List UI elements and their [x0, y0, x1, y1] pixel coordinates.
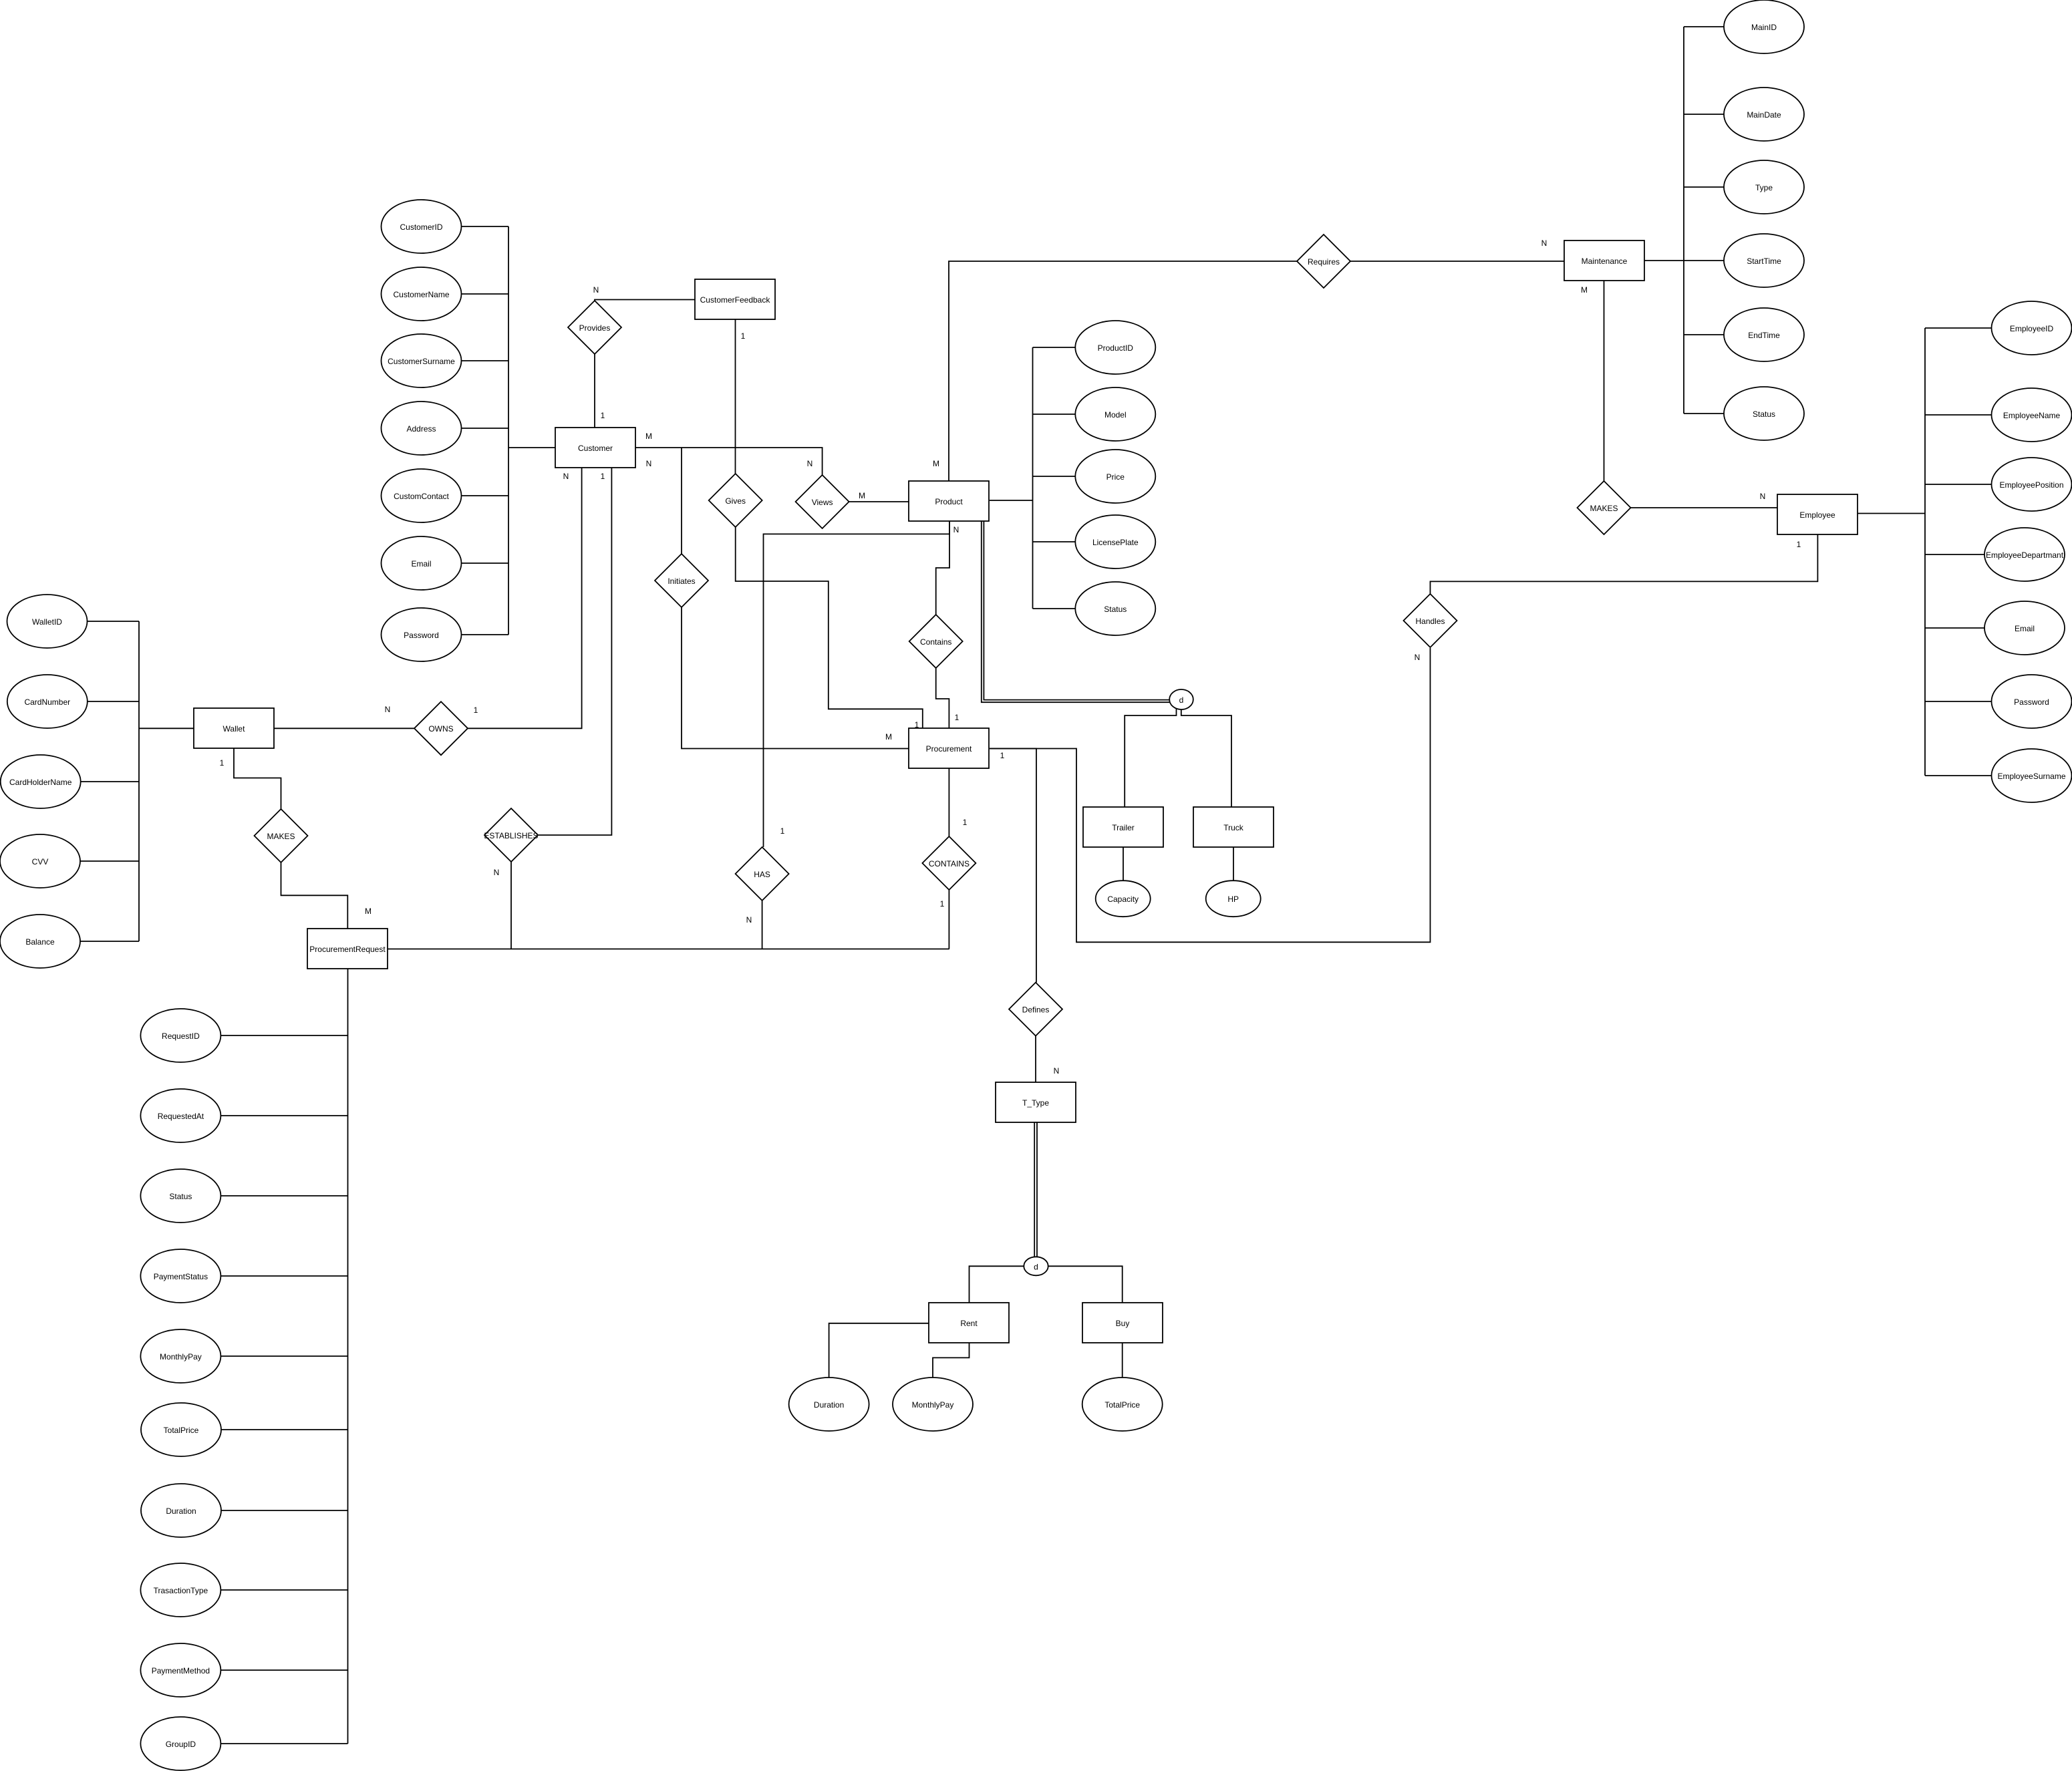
svg-text:Provides: Provides [579, 323, 611, 333]
entity CustomerFeedback [695, 279, 775, 319]
svg-text:PaymentMethod: PaymentMethod [152, 1666, 210, 1675]
wire Provides-Customer [594, 354, 595, 428]
relationship Contains [909, 615, 963, 668]
wire Wallet-MAKES [234, 748, 281, 809]
svg-text:d: d [1034, 1262, 1038, 1271]
svg-text:Balance: Balance [25, 937, 55, 947]
attribute EmployeeDepartmant [1984, 528, 2065, 581]
svg-text:1: 1 [940, 899, 945, 909]
wire Maintenance attribute bus [1644, 27, 1724, 414]
svg-text:Customer: Customer [578, 444, 613, 453]
attribute Balance [0, 915, 80, 968]
relationship Provides [568, 301, 621, 354]
svg-text:Maintenance: Maintenance [1582, 257, 1628, 266]
svg-text:MainDate: MainDate [1747, 110, 1781, 120]
svg-text:MainID: MainID [1751, 23, 1777, 32]
svg-text:M: M [859, 491, 865, 500]
svg-text:1: 1 [601, 472, 605, 481]
svg-text:HAS: HAS [754, 870, 770, 879]
wire Customer-ESTABLISHES [538, 468, 611, 835]
svg-text:Views: Views [812, 498, 833, 507]
svg-text:CardHolderName: CardHolderName [9, 778, 72, 787]
attribute TotalPrice (request) [141, 1403, 221, 1456]
attribute CustomerID [382, 200, 462, 253]
entity Employee [1777, 494, 1858, 534]
relationship Views [796, 475, 849, 528]
svg-text:Password: Password [404, 631, 439, 640]
attribute Email (employee) [1984, 601, 2065, 655]
node d (T_Type specialization) [1024, 1257, 1048, 1275]
relationship Requires [1297, 234, 1350, 288]
entity Maintenance [1564, 240, 1644, 281]
svg-text:RequestID: RequestID [162, 1031, 200, 1041]
relationship OWNS [414, 701, 468, 755]
wire long horizontal ProcurementRequest row [388, 949, 949, 950]
wire Product attribute bus [990, 347, 1075, 609]
svg-text:1: 1 [780, 826, 785, 836]
wire Views-Product [849, 501, 909, 502]
attribute EmployeeName [1992, 388, 2072, 442]
attribute MainDate [1724, 88, 1804, 141]
attribute TrasactionType [140, 1563, 220, 1617]
svg-text:TotalPrice: TotalPrice [1104, 1400, 1140, 1410]
svg-text:1: 1 [601, 411, 605, 420]
svg-text:CustomerID: CustomerID [400, 222, 442, 232]
attribute Email (customer) [382, 536, 462, 590]
svg-text:N: N [1541, 238, 1547, 248]
entity Product [909, 481, 989, 521]
node d (Product specialization) [1169, 689, 1193, 709]
svg-text:MonthlyPay: MonthlyPay [912, 1400, 954, 1410]
attribute CardHolderName [1, 755, 81, 808]
svg-text:M: M [885, 732, 892, 742]
wire d to Truck [1181, 709, 1231, 808]
wire Employee-Handles [1431, 534, 1818, 594]
svg-text:Duration: Duration [814, 1400, 844, 1410]
svg-text:1: 1 [741, 331, 746, 341]
svg-text:N: N [953, 525, 959, 534]
svg-text:TrasactionType: TrasactionType [154, 1586, 208, 1595]
wire d2 to Buy [1048, 1266, 1123, 1303]
svg-text:ProcurementRequest: ProcurementRequest [309, 945, 386, 954]
svg-text:Requires: Requires [1308, 257, 1340, 267]
wire double line T_Type-d2 [1034, 1122, 1035, 1257]
svg-text:CustomerSurname: CustomerSurname [388, 357, 455, 366]
svg-text:Status: Status [1753, 410, 1775, 419]
attribute TotalPrice (buy) [1082, 1378, 1163, 1431]
entity T_Type [996, 1082, 1076, 1122]
svg-text:M: M [365, 907, 372, 916]
svg-text:Rent: Rent [960, 1319, 978, 1328]
svg-text:RequestedAt: RequestedAt [158, 1112, 204, 1121]
svg-text:N: N [807, 459, 813, 468]
wire Defines-T_Type [1035, 1036, 1036, 1082]
svg-text:Price: Price [1106, 472, 1125, 482]
svg-text:1: 1 [1000, 751, 1005, 760]
attribute Password (customer) [382, 608, 462, 661]
wire Buy-TotalPrice [1122, 1343, 1123, 1378]
wire Trailer-Capacity [1123, 847, 1124, 880]
svg-text:CONTAINS: CONTAINS [929, 859, 970, 868]
svg-text:N: N [746, 915, 752, 925]
attribute RequestedAt [140, 1089, 220, 1142]
wire Maintenance-MAKES [1604, 281, 1605, 481]
wire double line Product-d [982, 521, 1170, 702]
svg-text:M: M [933, 459, 939, 468]
attribute Status (maintenance) [1724, 387, 1804, 440]
entity Customer [555, 428, 635, 468]
svg-text:1: 1 [963, 818, 968, 827]
svg-text:EmployeeID: EmployeeID [2010, 324, 2054, 333]
svg-text:LicensePlate: LicensePlate [1092, 538, 1139, 547]
relationship Handles [1404, 594, 1457, 647]
svg-text:CustomerFeedback: CustomerFeedback [700, 295, 771, 305]
svg-text:Status: Status [169, 1192, 192, 1201]
relationship HAS [736, 847, 789, 901]
wire Procurement-Defines [990, 749, 1036, 983]
svg-text:HP: HP [1227, 895, 1239, 904]
wire CONTAINS bottom [948, 890, 949, 949]
svg-text:M: M [645, 432, 652, 441]
wire Duration-Rent [829, 1323, 929, 1378]
relationship Defines [1009, 983, 1062, 1036]
svg-text:Model: Model [1104, 410, 1127, 420]
svg-text:1: 1 [915, 720, 919, 730]
svg-text:N: N [563, 472, 569, 481]
entity Rent [929, 1303, 1009, 1343]
svg-text:Password: Password [2014, 697, 2049, 707]
attribute PaymentMethod [140, 1643, 220, 1697]
svg-text:CVV: CVV [32, 857, 49, 866]
svg-text:MonthlyPay: MonthlyPay [160, 1352, 202, 1361]
attribute MonthlyPay (request) [140, 1329, 220, 1383]
wire d2 to Rent [970, 1266, 1024, 1303]
svg-text:Status: Status [1104, 605, 1127, 614]
attribute CustomerName [382, 267, 462, 321]
attribute EmployeeSurname [1992, 749, 2072, 802]
relationship Initiates [655, 554, 708, 607]
svg-text:EndTime: EndTime [1748, 331, 1780, 340]
attribute EmployeeID [1992, 301, 2072, 355]
svg-text:GroupID: GroupID [166, 1740, 196, 1749]
svg-text:Capacity: Capacity [1107, 895, 1139, 904]
svg-text:T_Type: T_Type [1022, 1098, 1049, 1108]
svg-text:1: 1 [1797, 540, 1801, 549]
entity Trailer [1083, 807, 1163, 847]
svg-text:TotalPrice: TotalPrice [164, 1426, 199, 1435]
svg-text:Defines: Defines [1022, 1005, 1050, 1015]
svg-text:EmployeePosition: EmployeePosition [1999, 480, 2063, 490]
entity Wallet [194, 708, 274, 748]
attribute EmployeePosition [1992, 458, 2072, 511]
wire Customer-Initiates [681, 448, 682, 554]
relationship MAKES (employee) [1578, 481, 1631, 534]
entity ProcurementRequest [307, 929, 388, 969]
attribute Password (employee) [1992, 675, 2072, 728]
wire Procurement-Handles [990, 648, 1431, 942]
svg-text:Email: Email [2015, 624, 2035, 633]
attribute EndTime [1724, 308, 1804, 361]
svg-text:N: N [1054, 1066, 1060, 1076]
attribute Address [382, 401, 462, 455]
svg-text:1: 1 [220, 758, 225, 768]
svg-text:StartTime: StartTime [1747, 257, 1781, 266]
attribute Capacity [1096, 880, 1151, 917]
svg-text:N: N [385, 705, 391, 714]
attribute WalletID [7, 595, 88, 648]
svg-text:Email: Email [411, 559, 431, 569]
svg-text:1: 1 [955, 713, 959, 722]
relationship ESTABLISHES [484, 808, 538, 862]
wire Customer-Views [635, 448, 823, 475]
wire Customer-OWNS [468, 468, 582, 728]
svg-text:Trailer: Trailer [1112, 823, 1135, 832]
attribute Model [1075, 387, 1155, 441]
svg-text:N: N [593, 285, 599, 295]
wire Product-HAS [764, 521, 950, 847]
svg-text:PaymentStatus: PaymentStatus [154, 1272, 208, 1281]
wire Requires-Maintenance [1350, 261, 1564, 262]
attribute ProductID [1075, 321, 1155, 374]
wire Product-Contains [936, 521, 949, 615]
relationship MAKES (wallet) [255, 809, 308, 862]
wire Contains-Procurement [936, 668, 949, 728]
relationship CONTAINS [922, 836, 976, 890]
attribute Price [1075, 450, 1155, 503]
wire Wallet attribute bus [80, 621, 194, 941]
wire MAKES-Employee [1631, 507, 1778, 508]
attribute CardNumber [7, 675, 88, 728]
wire CustomerFeedback-Gives [735, 319, 736, 474]
svg-text:OWNS: OWNS [428, 724, 453, 734]
wire Gives-Procurement [736, 527, 923, 728]
wire Procurement-CONTAINS [948, 768, 949, 836]
attribute CustomContact [382, 469, 462, 522]
svg-text:Truck: Truck [1223, 823, 1244, 832]
wire Initiates-Procurement [682, 607, 909, 749]
attribute CVV [0, 834, 80, 888]
wire d to Trailer [1125, 709, 1176, 807]
svg-text:CustomerName: CustomerName [393, 290, 449, 299]
attribute HP [1206, 880, 1261, 917]
svg-text:MAKES: MAKES [267, 832, 295, 841]
svg-text:Handles: Handles [1415, 617, 1445, 626]
svg-text:Address: Address [406, 424, 436, 434]
svg-text:EmployeeDepartmant: EmployeeDepartmant [1986, 550, 2064, 560]
svg-text:Contains: Contains [920, 637, 951, 647]
svg-text:EmployeeName: EmployeeName [2003, 411, 2061, 420]
attribute Type [1724, 160, 1804, 214]
svg-text:CardNumber: CardNumber [24, 697, 70, 707]
svg-text:N: N [1415, 653, 1421, 662]
wire ESTABLISHES bottom [510, 862, 512, 949]
wire MAKES-ProcurementRequest [281, 862, 348, 929]
attribute Status (product) [1075, 582, 1155, 635]
entity Buy [1082, 1303, 1163, 1343]
attribute Duration (request) [141, 1484, 221, 1537]
attribute Duration (rent) [789, 1378, 869, 1431]
svg-text:MAKES: MAKES [1590, 504, 1618, 513]
relationship Gives [709, 474, 762, 527]
svg-text:EmployeeSurname: EmployeeSurname [1997, 772, 2065, 781]
attribute CustomerSurname [382, 334, 462, 387]
svg-text:Gives: Gives [725, 496, 746, 506]
svg-text:N: N [494, 868, 500, 877]
attribute PaymentStatus [140, 1249, 220, 1303]
svg-text:ProductID: ProductID [1098, 343, 1134, 353]
wire ProcurementRequest attribute bus [220, 969, 347, 1744]
svg-text:WalletID: WalletID [32, 617, 62, 627]
svg-text:N: N [1760, 492, 1766, 501]
wire Employee attribute bus [1858, 328, 1992, 776]
svg-text:Duration: Duration [166, 1506, 196, 1516]
attribute LicensePlate [1075, 515, 1155, 569]
svg-text:Initiates: Initiates [668, 577, 695, 586]
wire Product-Requires [949, 261, 1297, 481]
wire Wallet-OWNS [274, 728, 414, 729]
svg-text:ESTABLISHES: ESTABLISHES [484, 831, 538, 840]
svg-text:M: M [1581, 285, 1588, 295]
entity Truck [1193, 807, 1274, 847]
svg-text:d: d [1179, 695, 1184, 705]
wire Provides-CustomerFeedback [595, 300, 695, 301]
svg-text:CustomContact: CustomContact [394, 492, 449, 501]
attribute RequestID [140, 1009, 220, 1062]
attribute GroupID [140, 1717, 220, 1770]
svg-text:Buy: Buy [1116, 1319, 1130, 1328]
svg-text:Employee: Employee [1799, 510, 1835, 520]
attribute MonthlyPay (rent) [893, 1378, 973, 1431]
wire HAS bottom [762, 901, 763, 949]
attribute StartTime [1724, 234, 1804, 287]
entity Procurement [909, 728, 989, 768]
svg-text:Product: Product [935, 497, 963, 506]
svg-text:N: N [646, 459, 652, 468]
svg-text:Wallet: Wallet [223, 724, 246, 734]
svg-text:Procurement: Procurement [926, 744, 972, 754]
wire Customer attribute bus [462, 226, 556, 635]
wire Rent-MonthlyPay [933, 1343, 970, 1378]
wire Truck-HP [1233, 847, 1234, 880]
svg-text:Type: Type [1755, 183, 1773, 192]
attribute Status (request) [140, 1169, 220, 1223]
svg-text:1: 1 [474, 705, 478, 715]
attribute MainID [1724, 0, 1804, 53]
